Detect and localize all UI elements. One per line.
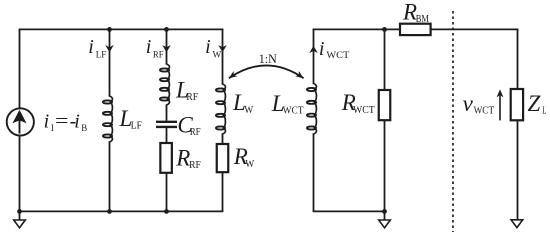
- svg-text:LF: LF: [96, 49, 107, 59]
- svg-text:WCT: WCT: [353, 104, 375, 116]
- wire load branch upper: [517, 29, 519, 89]
- wire branch RF upper: [166, 29, 168, 64]
- label L_RF: [175, 77, 198, 103]
- resistor Z_L: [511, 89, 523, 120]
- wire branch L_WCT upper: [313, 29, 315, 83]
- resistor R_BM: [400, 24, 431, 35]
- label R_WCT: [341, 90, 375, 116]
- wire L_W to R_W: [222, 134, 224, 144]
- wire branch L_LF lower: [109, 142, 111, 211]
- wire C_RF to R_RF: [166, 128, 168, 143]
- label i_WCT: [319, 38, 350, 60]
- wire branch L_LF upper: [109, 29, 111, 96]
- svg-text:i: i: [88, 36, 94, 58]
- arrow v_WCT (up): [497, 89, 504, 120]
- wire branch RF lower: [166, 173, 168, 212]
- label L_W: [232, 90, 254, 116]
- capacitor C_RF: [156, 122, 177, 127]
- label C_RF: [177, 112, 200, 138]
- svg-text:=: =: [55, 110, 69, 132]
- svg-text:i: i: [319, 38, 325, 60]
- wire branch R_WCT upper: [384, 29, 386, 90]
- svg-text:W: W: [244, 104, 254, 116]
- ground WCT: [379, 211, 391, 227]
- inductor L_W: [216, 83, 226, 134]
- label iI = -iB: [44, 110, 88, 133]
- ground load: [511, 220, 523, 228]
- wire top rail WCT: [313, 28, 400, 30]
- wire L_RF to C_RF: [166, 105, 168, 121]
- svg-text:RF: RF: [190, 126, 201, 138]
- svg-text:i: i: [146, 36, 152, 58]
- svg-text:RF: RF: [189, 159, 201, 171]
- wire branch L_WCT lower: [313, 134, 315, 211]
- label R_RF: [175, 145, 201, 171]
- wire bottom rail WCT: [313, 210, 386, 212]
- arrow i_RF (down): [162, 45, 171, 52]
- resistor R_W: [217, 144, 229, 172]
- junction dot bottom left: [17, 209, 22, 214]
- label R_BM: [402, 0, 429, 25]
- inductor L_LF: [103, 95, 113, 142]
- svg-text:WCT: WCT: [326, 50, 350, 60]
- label i_RF: [146, 36, 164, 60]
- svg-text:B: B: [81, 123, 87, 133]
- svg-text:1:N: 1:N: [259, 51, 278, 66]
- svg-text:LF: LF: [131, 120, 142, 132]
- svg-text:L: L: [542, 105, 546, 117]
- label L_WCT: [271, 91, 304, 117]
- ground left: [14, 211, 26, 227]
- wire bottom rail left circuit: [19, 210, 224, 212]
- label i_LF: [88, 36, 106, 60]
- label Z_L: [528, 91, 547, 117]
- resistor R_RF: [160, 143, 172, 173]
- label 1:N: [259, 51, 278, 66]
- svg-text:I: I: [51, 123, 54, 133]
- svg-text:BM: BM: [416, 13, 429, 25]
- svg-text:R: R: [175, 145, 190, 170]
- svg-text:RF: RF: [186, 91, 198, 103]
- svg-text:WCT: WCT: [474, 105, 495, 117]
- svg-text:i: i: [74, 110, 80, 132]
- wire branch W lower: [222, 172, 224, 211]
- junction dot bottom L_LF: [107, 209, 112, 214]
- transformer coupling arrow 1:N: [229, 65, 304, 78]
- resistor R_WCT: [379, 90, 391, 120]
- wire top rail left circuit: [19, 28, 224, 30]
- label R_W: [233, 144, 255, 170]
- wire R_BM to load: [431, 28, 519, 30]
- arrow i_WCT (up): [309, 46, 318, 53]
- inductor L_RF: [160, 63, 170, 105]
- svg-text:RF: RF: [153, 49, 164, 59]
- svg-text:W: W: [245, 158, 255, 170]
- junction dot bottom RF: [164, 209, 169, 214]
- svg-text:i: i: [205, 36, 211, 58]
- svg-text:v: v: [463, 91, 474, 116]
- junction dot bottom R_WCT: [382, 209, 387, 214]
- wire branch W upper: [222, 29, 224, 84]
- svg-text:WCT: WCT: [283, 105, 304, 117]
- label v_WCT: [463, 91, 495, 117]
- junction dot top R_WCT: [382, 27, 387, 32]
- junction dot top L_LF: [107, 27, 112, 32]
- arrow i_W (down): [218, 45, 227, 52]
- junction dot top L_RF: [164, 27, 169, 32]
- svg-text:Z: Z: [528, 91, 541, 116]
- wire load branch lower: [517, 120, 519, 219]
- wire branch R_WCT lower: [384, 120, 386, 211]
- label L_LF: [119, 106, 143, 132]
- svg-text:i: i: [44, 110, 50, 132]
- current source I1 (iI = -iB): [7, 29, 34, 211]
- inductor L_WCT: [307, 83, 317, 135]
- svg-text:W: W: [213, 49, 222, 59]
- arrow i_LF (down): [105, 45, 114, 52]
- label i_W: [205, 36, 222, 60]
- dashed separator line: [452, 11, 454, 232]
